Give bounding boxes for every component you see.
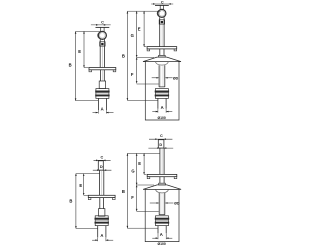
fig4 extension line top	[127, 152, 159, 154]
fig2 dimension OD line	[152, 77, 159, 79]
fig4 shaft below flange	[159, 177, 161, 184]
fig2 nut/washer stack outline	[155, 89, 168, 99]
fig1 washer band 2	[95, 95, 109, 97]
fig3 nut mid line	[95, 219, 108, 221]
fig3 dimension E line	[83, 174, 85, 196]
fig4 dimension E line	[143, 153, 145, 174]
fig4 thread start line	[159, 214, 165, 216]
figure 3: stub-head insulator pin, standalone view	[0, 0, 1, 1]
svg-text:C: C	[101, 21, 104, 25]
fig2 nut mid line	[155, 92, 168, 94]
fig1 cotter pin dot	[101, 43, 103, 45]
fig3 shaft upper	[99, 170, 101, 195]
svg-text:F: F	[131, 195, 134, 200]
fig3 thread section	[99, 209, 105, 217]
fig3 extension line E bottom	[84, 194, 89, 196]
fig4 pole body	[145, 189, 179, 241]
fig1 shaft upper	[99, 39, 101, 67]
fig2 head ball shading crescent	[157, 10, 161, 18]
fig1 extension line B bottom	[76, 100, 98, 102]
fig4 pole cap cone	[143, 185, 181, 190]
fig2 dimension E line	[143, 11, 145, 46]
fig2 pole body	[145, 62, 179, 120]
fig2 thread start line	[159, 86, 165, 88]
svg-text:E: E	[78, 49, 81, 54]
fig1 flange left tab	[89, 70, 92, 72]
fig3 shaft below flange	[99, 198, 101, 209]
svg-text:Ø100: Ø100	[157, 242, 165, 246]
fig2 dimension F line	[136, 57, 138, 83]
fig3 washer band 1	[95, 218, 109, 220]
fig1 flange right tab	[113, 70, 116, 72]
fig2 crossarm flange bar	[147, 47, 177, 49]
svg-text:G: G	[131, 168, 134, 173]
svg-text:F: F	[131, 72, 134, 77]
fig3 dimension C line	[94, 159, 111, 161]
fig2 dimension B line	[126, 11, 128, 100]
fig3 dimension A line	[92, 239, 98, 241]
fig2 cotter square below ball	[159, 20, 164, 24]
fig2 flange right tab	[174, 49, 177, 51]
fig4 crossarm flange bar	[147, 174, 177, 176]
fig3 dimension D line	[93, 169, 112, 171]
fig2 extension line B bottom	[127, 99, 158, 101]
fig4 dimension C line	[149, 138, 172, 140]
svg-text:B: B	[122, 189, 125, 194]
fig1 head ball inner circle	[100, 33, 105, 38]
fig2 head ball inner circle	[159, 11, 164, 16]
svg-text:C: C	[161, 0, 164, 4]
fig1 head ball outer ring	[98, 31, 106, 39]
fig3 stem	[97, 226, 99, 238]
fig4 washer band 2	[155, 222, 169, 224]
fig3 crossarm flange bar	[88, 195, 115, 197]
fig2 extension line F bottom	[137, 83, 159, 85]
svg-text:D: D	[100, 164, 103, 169]
fig1 dimension E line	[83, 31, 85, 67]
fig4 dimension B line	[126, 153, 128, 228]
svg-text:A: A	[100, 233, 103, 238]
fig2 shaft in pole	[158, 65, 160, 87]
fig4 cap inner arc	[156, 190, 169, 193]
fig3 extension line B bottom	[76, 227, 98, 229]
fig2 stem extension ticks	[157, 109, 159, 113]
fig1 dimension C line	[91, 24, 111, 26]
fig2 flange left tab	[147, 49, 150, 51]
fig1 thread section	[99, 81, 105, 89]
fig4 stem extension ticks	[157, 233, 159, 239]
fig3 stub head	[98, 161, 103, 170]
fig2 shaft below flange	[159, 49, 161, 56]
fig1 extension line E bottom	[84, 67, 88, 69]
fig4 nut/washer stack outline	[156, 216, 169, 226]
fig2 extension line top	[127, 10, 160, 12]
fig4 flange right tab	[174, 177, 177, 179]
fig2 dimension G line	[136, 11, 138, 57]
fig3 extension line top	[76, 173, 100, 175]
fig1 stem extension ticks	[97, 110, 99, 113]
fig4 dimension D line	[148, 147, 173, 149]
figure 2: ball-head pin mounted on pole top	[0, 0, 1, 1]
figure 4: stub-head pin mounted on pole top	[0, 0, 1, 1]
fig2 washer band 2	[155, 95, 169, 97]
fig2 head ball outer ring	[158, 9, 166, 17]
fig3 nut/washer stack outline	[95, 216, 108, 226]
fig1 stem	[97, 98, 99, 110]
fig1 nut/washer stack outline	[96, 89, 109, 99]
fig2 dimension A line	[152, 111, 158, 113]
fig2 collar	[159, 55, 166, 57]
fig2 head neck	[159, 5, 161, 9]
figure 1: ball-head insulator pin, standalone view	[0, 0, 1, 1]
fig3 flange left tab	[88, 198, 91, 200]
fig4 extension line B bottom	[127, 227, 158, 229]
fig2 pole cap cone	[143, 57, 181, 62]
fig4 shaft upper	[159, 148, 161, 174]
fig4 washer band 1	[155, 218, 169, 220]
fig1 cotter square below ball	[100, 42, 105, 46]
fig2 dimension C line	[151, 3, 173, 5]
fig2 extension line E bottom	[144, 46, 146, 48]
fig2 stem	[157, 98, 159, 108]
svg-text:ØD: ØD	[173, 76, 179, 80]
fig1 head neck	[100, 27, 102, 31]
fig4 extension line E bottom	[144, 173, 146, 175]
svg-text:E: E	[79, 183, 82, 188]
fig1 crossarm flange bar	[89, 68, 116, 70]
fig4 stem	[157, 226, 159, 234]
svg-text:A: A	[160, 232, 163, 237]
svg-text:E: E	[138, 161, 141, 166]
fig2 shaft upper	[159, 17, 161, 46]
fig4 flange left tab	[147, 177, 150, 179]
fig3 washer band 2	[95, 222, 109, 224]
fig2 washer band 1	[155, 91, 169, 93]
svg-text:C: C	[160, 134, 163, 138]
fig4 nut mid line	[156, 219, 169, 221]
fig1 shaft below flange	[100, 70, 102, 81]
fig1 head ball shading crescent	[97, 32, 101, 40]
svg-text:B: B	[122, 54, 125, 59]
fig4 stub head	[158, 140, 164, 148]
fig3 dimension B line	[75, 174, 77, 229]
fig2 extension line G bottom	[137, 56, 154, 58]
svg-text:Ø100: Ø100	[157, 116, 165, 120]
svg-text:ØD: ØD	[174, 202, 180, 206]
fig4 dimension A line	[152, 237, 158, 239]
fig4 shaft in pole	[158, 193, 160, 215]
fig1 dimension A line	[93, 112, 99, 114]
fig4 dimension G line	[136, 153, 138, 185]
fig4 collar	[159, 183, 166, 185]
fig3 flange right tab	[113, 198, 116, 200]
fig4 extension line G bottom	[137, 184, 154, 186]
fig2 cotter pin dot	[161, 21, 163, 23]
fig1 head top plate	[96, 26, 110, 28]
fig1 washer band 1	[95, 91, 109, 93]
fig3 stem extension ticks	[97, 238, 99, 241]
svg-text:B: B	[69, 63, 72, 68]
fig4 dimension OD line	[150, 202, 159, 204]
fig1 extension line top	[76, 30, 101, 32]
fig1 nut mid line	[96, 92, 109, 94]
fig4 extension line F bottom	[137, 211, 159, 213]
svg-text:G: G	[131, 33, 134, 38]
svg-text:A: A	[161, 105, 164, 110]
svg-text:C: C	[101, 155, 104, 159]
fig4 dimension F line	[136, 185, 138, 211]
fig2 head top plate	[155, 4, 169, 6]
svg-text:B: B	[69, 198, 72, 203]
fig2 cap inner arc	[156, 62, 169, 65]
svg-text:D: D	[159, 142, 162, 147]
fig1 dimension B line	[75, 31, 77, 100]
svg-text:A: A	[101, 106, 104, 111]
svg-text:E: E	[138, 27, 141, 32]
